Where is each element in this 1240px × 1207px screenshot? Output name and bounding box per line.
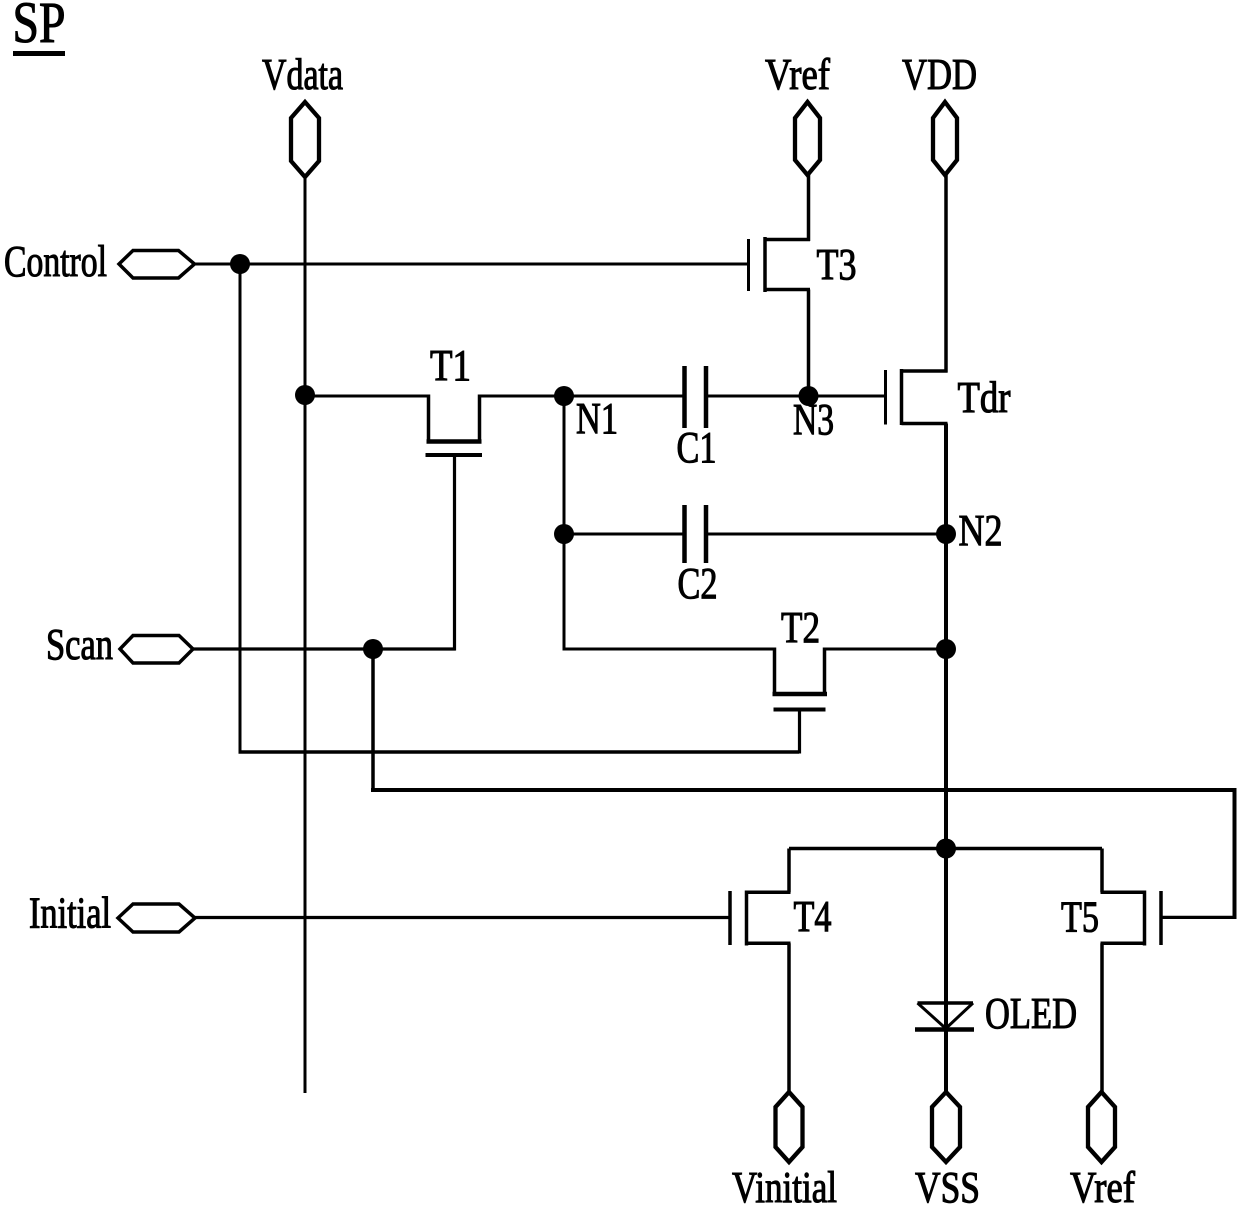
svg-text:T3: T3 xyxy=(817,240,857,289)
svg-text:T1: T1 xyxy=(430,341,471,390)
transistor T3 xyxy=(749,237,811,292)
node N3 xyxy=(799,386,819,406)
svg-text:VDD: VDD xyxy=(902,50,977,99)
transistor T1 xyxy=(426,395,483,651)
wire Vdata vertical xyxy=(304,177,307,1093)
node Control junction xyxy=(230,254,250,274)
wire Scan horizontal xyxy=(193,647,456,650)
wire right vertical to T5 gate xyxy=(1233,788,1237,917)
svg-text:Tdr: Tdr xyxy=(958,373,1011,422)
wire Control to T2 gate xyxy=(239,750,800,754)
wire T3 to N3 xyxy=(807,290,811,397)
terminal Initial xyxy=(118,904,195,932)
svg-text:Vinitial: Vinitial xyxy=(732,1163,837,1207)
node T2 drain junction xyxy=(936,639,956,659)
terminal VDD xyxy=(933,102,957,175)
wire T4 drain vertical xyxy=(787,849,791,893)
terminal Vinitial xyxy=(776,1092,803,1162)
wire C2 to N2 xyxy=(706,533,946,536)
wire Control horizontal xyxy=(195,263,749,266)
wire Scan branch horizontal xyxy=(371,788,1237,792)
node Vdata/T1 junction xyxy=(295,385,315,405)
label SP underline xyxy=(13,51,65,56)
svg-text:Initial: Initial xyxy=(29,889,111,938)
svg-text:T2: T2 xyxy=(781,603,820,652)
diode OLED xyxy=(915,1003,974,1030)
svg-text:Vref: Vref xyxy=(1070,1163,1135,1207)
transistor T4 xyxy=(730,891,791,946)
svg-text:VSS: VSS xyxy=(915,1163,980,1207)
svg-text:Scan: Scan xyxy=(46,620,113,669)
wire N2 vertical (Tdr source to VSS) xyxy=(944,424,948,1094)
transistor T5 xyxy=(1101,891,1162,946)
wire Initial horizontal xyxy=(195,916,730,919)
terminal Control xyxy=(119,251,195,279)
wire T4 source vertical xyxy=(787,943,791,1093)
node N2 xyxy=(936,524,956,544)
transistor T2 xyxy=(773,648,828,754)
wire N1 vertical xyxy=(563,396,566,651)
svg-text:T4: T4 xyxy=(794,892,832,941)
node Scan junction xyxy=(363,639,383,659)
svg-text:Vdata: Vdata xyxy=(262,50,343,99)
node OLED top junction xyxy=(936,839,956,859)
node N1 xyxy=(554,386,574,406)
svg-text:N2: N2 xyxy=(959,506,1003,555)
wire T5 gate horizontal xyxy=(1161,916,1237,919)
terminal Vref top xyxy=(795,102,820,175)
svg-text:T5: T5 xyxy=(1061,893,1099,942)
svg-text:N3: N3 xyxy=(793,395,834,444)
svg-text:N1: N1 xyxy=(576,394,618,443)
svg-text:OLED: OLED xyxy=(985,989,1077,1038)
node C2 left junction xyxy=(554,524,574,544)
wire Scan branch vertical xyxy=(371,649,375,792)
svg-text:SP: SP xyxy=(13,0,66,55)
svg-text:C1: C1 xyxy=(677,423,717,472)
wire N1 branch to T2 xyxy=(564,648,775,651)
svg-text:C2: C2 xyxy=(678,559,718,608)
wire Vref to T3 xyxy=(807,175,811,241)
terminal Vdata xyxy=(291,102,319,177)
wire T5 drain vertical xyxy=(1100,849,1104,893)
wire Control vertical xyxy=(239,264,242,754)
capacitor C2 xyxy=(685,505,707,563)
terminal VSS xyxy=(932,1092,960,1162)
svg-text:Vref: Vref xyxy=(765,50,830,99)
wire VDD vertical xyxy=(944,175,948,373)
wire N1 to C1 xyxy=(564,395,685,398)
wire T2 to N2 line xyxy=(825,648,947,651)
transistor Tdr xyxy=(886,369,948,425)
wire C1 to Tdr gate xyxy=(706,395,886,398)
wire C2 left xyxy=(564,533,685,536)
terminal Scan xyxy=(120,636,193,664)
wire T4-T5 horizontal xyxy=(789,847,1102,851)
wire Vdata to T1 xyxy=(305,395,430,398)
wire T1 to N1 xyxy=(480,395,565,398)
terminal Vref bottom xyxy=(1088,1092,1115,1162)
wire T5 source vertical xyxy=(1100,943,1104,1093)
svg-text:Control: Control xyxy=(4,237,107,286)
capacitor C1 xyxy=(685,366,707,428)
